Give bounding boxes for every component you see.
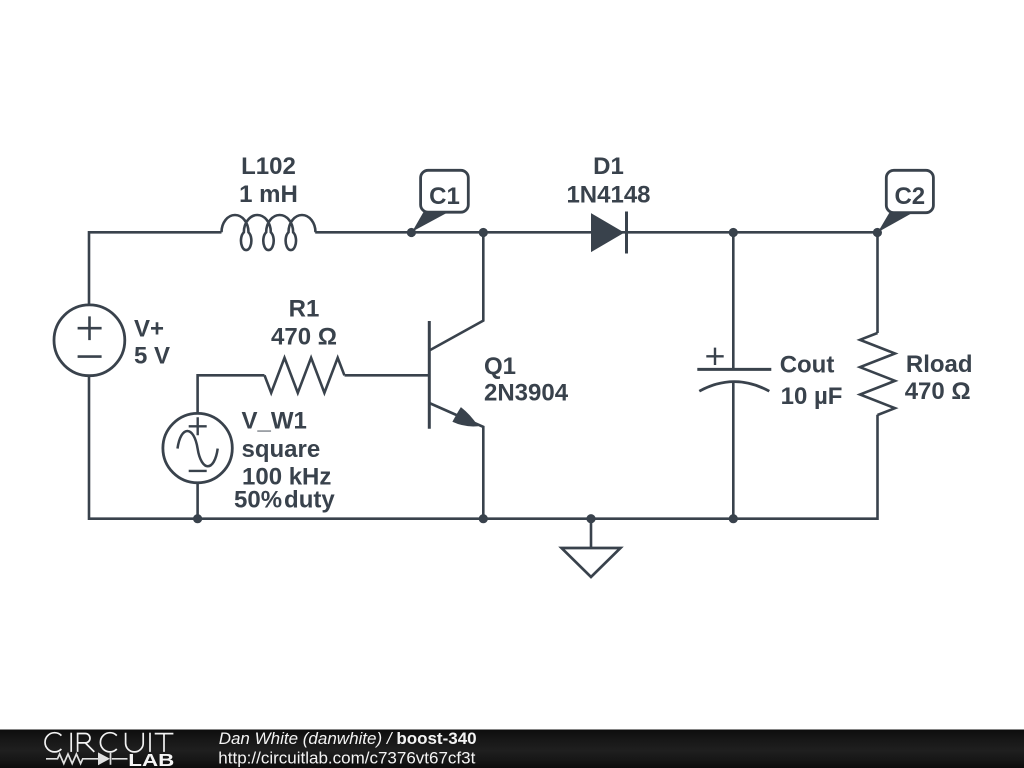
transistor Q1 emitter diagonal and vertical [429, 403, 483, 519]
svg-text:1N4148: 1N4148 [566, 182, 650, 209]
resistor R1 [265, 358, 345, 393]
ground triangle [562, 548, 621, 577]
junction dot collector top [479, 228, 488, 237]
svg-text:2N3904: 2N3904 [484, 380, 569, 407]
junction dot Cout top [729, 228, 738, 237]
capacitor Cout top plate [697, 368, 771, 371]
logo diode triangle [98, 752, 110, 765]
ground stub [590, 519, 593, 548]
svg-text:R1: R1 [289, 295, 320, 322]
svg-text:Q1: Q1 [484, 353, 516, 380]
diode D1 triangle [591, 213, 624, 252]
Cout polarity plus sign [706, 348, 723, 365]
logo letter I [149, 733, 151, 752]
logo diode wire [111, 753, 128, 765]
junction dot C1 node [407, 228, 416, 237]
wire top horizontal and right vertical upper (L102 to C2 node to Rload) [315, 232, 877, 333]
node label box C1 [421, 170, 469, 212]
V+ minus sign [78, 355, 102, 358]
wire left lower, bottom rail, right lower (V+ to bottom to Rload) [89, 376, 878, 519]
diode D1 cathode bar [625, 212, 628, 254]
svg-text:C2: C2 [894, 183, 925, 210]
svg-text:L102: L102 [241, 153, 296, 180]
svg-text:Cout: Cout [780, 352, 835, 379]
Q1 emitter arrowhead [452, 407, 478, 426]
svg-text:1 mH: 1 mH [239, 181, 298, 208]
V_W1 minus sign [189, 470, 207, 472]
svg-text:50% duty: 50% duty [234, 487, 335, 514]
wire R1 to Q1 base [345, 374, 430, 377]
voltage source V_W1 circle [163, 413, 232, 482]
logo letter U [126, 733, 144, 752]
V_W1 plus sign [189, 417, 207, 435]
inductor L102 [222, 215, 316, 250]
logo letter T [155, 734, 174, 752]
wire V_W1 top lead and horizontal to R1 [198, 375, 265, 413]
svg-text:square: square [242, 436, 321, 463]
svg-text:V_W1: V_W1 [242, 408, 307, 435]
logo letter C [100, 733, 116, 752]
junction dot V_W1 bottom [193, 514, 202, 523]
transistor Q1 collector diagonal and vertical [429, 232, 483, 350]
svg-text:Dan White (danwhite) / boost-3: Dan White (danwhite) / boost-340 [219, 729, 477, 748]
capacitor Cout curved bottom plate [699, 382, 769, 392]
junction dot Cout bottom [729, 514, 738, 523]
junction dot C2 node [873, 228, 882, 237]
svg-text:470 Ω: 470 Ω [905, 378, 971, 405]
V+ plus sign [78, 316, 102, 340]
logo resistor squiggle [46, 754, 98, 764]
svg-text:Rload: Rload [906, 351, 973, 378]
node label box C2 [886, 170, 933, 212]
svg-text:LAB: LAB [128, 750, 174, 768]
voltage source V+ circle [54, 305, 125, 376]
svg-text:10 µF: 10 µF [781, 383, 843, 410]
C1 pointer wedge [412, 212, 446, 232]
svg-text:D1: D1 [593, 153, 624, 180]
svg-text:470 Ω: 470 Ω [271, 324, 337, 351]
junction dot ground [586, 514, 595, 523]
transistor Q1 base bar [428, 321, 431, 429]
logo letter I [70, 733, 72, 752]
V_W1 sine wave [178, 431, 218, 466]
svg-text:C1: C1 [429, 183, 460, 210]
C2 pointer wedge [878, 212, 912, 232]
junction dot emitter bottom [479, 514, 488, 523]
footer bar [0, 730, 1024, 768]
wire Cout top branch [732, 232, 735, 369]
svg-text:5 V: 5 V [134, 342, 170, 369]
wire V_W1 bottom lead [196, 484, 199, 519]
wire Cout bottom branch [732, 381, 735, 519]
svg-text:http://circuitlab.com/c7376vt6: http://circuitlab.com/c7376vt67cf3t [218, 749, 475, 768]
logo letter C [45, 733, 61, 752]
wire top-left corner (V+ top lead to L102) [89, 232, 222, 304]
resistor Rload [860, 333, 895, 415]
logo letter R [78, 734, 95, 752]
svg-text:V+: V+ [134, 316, 164, 343]
